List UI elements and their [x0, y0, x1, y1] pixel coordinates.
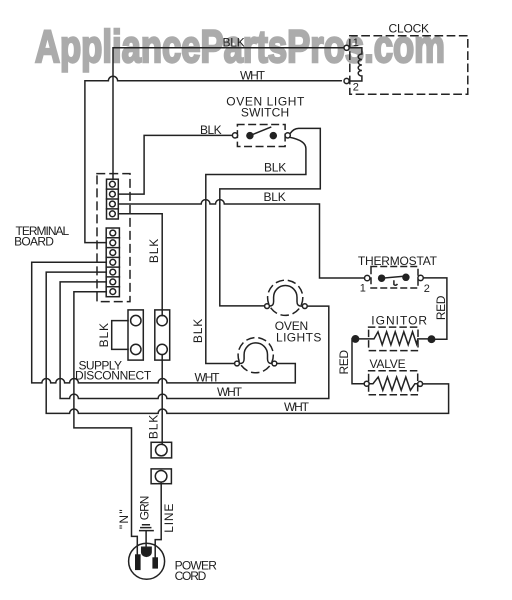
thermostat box — [371, 267, 418, 289]
supply disconnect right block — [155, 310, 170, 360]
plug ground prong — [142, 547, 151, 556]
svg-text:BLK: BLK — [223, 36, 245, 50]
svg-text:2: 2 — [353, 81, 359, 93]
supply disconnect left block — [128, 310, 143, 360]
node: ignitor left junction — [352, 336, 358, 342]
svg-text:BLK: BLK — [264, 160, 286, 174]
svg-text:WHT: WHT — [217, 385, 243, 399]
clock pin 1 — [344, 45, 349, 50]
wire BLK: terminal board pin 3 to thermostat pin 1 (two hops) — [118, 200, 364, 278]
line terminal lower — [151, 469, 171, 484]
valve resistor — [369, 377, 417, 390]
clock pin 2 — [344, 78, 349, 83]
svg-text:VALVE: VALVE — [370, 357, 406, 371]
plug line prong — [152, 557, 158, 568]
ground symbol — [140, 525, 153, 548]
wire BLK: terminal board pin 4 to supply disconnect and power cord line — [118, 214, 162, 316]
power cord plug — [129, 543, 165, 579]
svg-text:BLK: BLK — [264, 190, 286, 204]
svg-text:WHT: WHT — [240, 68, 266, 82]
svg-text:"N": "N" — [117, 508, 131, 529]
svg-text:IGNITOR: IGNITOR — [371, 313, 428, 327]
wire WHT: lower oven light to terminal board pin 4 (hops) — [32, 262, 296, 383]
svg-text:DISCONNECT: DISCONNECT — [75, 368, 152, 382]
thermostat contacts — [365, 275, 370, 280]
wire WHT: valve to terminal board pin 5 (long bottom run) — [46, 272, 448, 413]
wire RED: thermostat pin 2 to ignitor right node — [423, 278, 447, 339]
svg-text:1: 1 — [353, 37, 359, 49]
svg-text:BLK: BLK — [147, 414, 161, 439]
upper oven light — [265, 280, 308, 315]
supply disconnect jumper — [112, 321, 128, 350]
line terminal upper — [151, 442, 172, 458]
ignitor box — [369, 327, 418, 351]
wire BLK: switch to lower oven light (inner loop) — [206, 137, 306, 363]
valve terminals — [364, 381, 369, 386]
wire (supply disconnect to line terminal) — [161, 355, 163, 445]
svg-text:WHT: WHT — [284, 400, 310, 414]
svg-text:BLK: BLK — [97, 322, 111, 347]
clock box — [350, 36, 468, 94]
svg-text:THERMOSTAT: THERMOSTAT — [358, 254, 438, 268]
svg-text:LIGHTS: LIGHTS — [276, 330, 322, 344]
wire BLK: terminal board pin 2 to oven light switch — [118, 135, 232, 194]
svg-text:LINE: LINE — [162, 503, 176, 533]
svg-text:BLK: BLK — [191, 318, 205, 343]
svg-text:RED: RED — [337, 350, 351, 375]
valve box — [369, 371, 418, 395]
oven light switch box — [237, 125, 285, 147]
svg-text:SWITCH: SWITCH — [241, 106, 290, 120]
svg-text:2: 2 — [424, 283, 430, 295]
svg-text:BOARD: BOARD — [14, 235, 54, 249]
terminal board dashed box — [97, 174, 130, 302]
svg-text:CLOCK: CLOCK — [389, 21, 430, 35]
plug neutral prong — [135, 554, 141, 570]
terminal board lower block — [106, 228, 119, 297]
lower oven light — [235, 338, 277, 373]
svg-text:BLK: BLK — [200, 123, 222, 137]
svg-text:CORD: CORD — [175, 569, 207, 583]
svg-text:RED: RED — [434, 295, 448, 320]
svg-text:GRN: GRN — [137, 496, 151, 520]
oven light switch contacts — [232, 133, 237, 138]
wire BLK: terminal board pin 1 to clock pin 1 — [113, 48, 344, 179]
node: ignitor right junction — [428, 336, 434, 342]
wire N: terminal board pin 7 to power cord neutral — [74, 292, 137, 556]
wire BLK: switch to upper oven light (outer loop) — [220, 128, 320, 306]
wire WHT: upper oven light to terminal board pin 6 (hops) — [60, 282, 329, 399]
ignitor resistor — [355, 332, 428, 345]
wire (line terminal to plug) — [155, 482, 161, 558]
wire RED: ignitor left node to valve — [352, 339, 364, 384]
terminal board upper block — [107, 179, 119, 219]
svg-text:1: 1 — [360, 282, 366, 294]
clock coil — [349, 48, 362, 81]
wire WHT: terminal board lower pin 2 to clock pin 2 (hop over BLK vertical) — [85, 76, 341, 242]
svg-text:WHT: WHT — [195, 371, 221, 385]
svg-text:BLK: BLK — [147, 238, 161, 263]
